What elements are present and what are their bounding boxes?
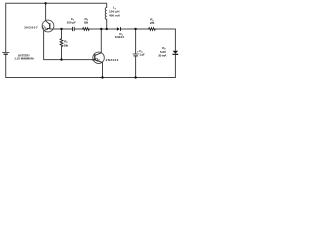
wire mid rail R2 to D1	[89, 28, 117, 30]
wire mid rail C1 to R2	[74, 28, 82, 30]
wire Q2 collector up	[100, 29, 102, 53]
svg-text:10k: 10k	[64, 43, 69, 47]
svg-text:20 mA: 20 mA	[158, 53, 167, 57]
svg-text:10k: 10k	[84, 21, 89, 25]
junction node dots	[44, 2, 136, 79]
wire mid rail D1 to R3	[121, 28, 149, 30]
wire R1 top	[61, 29, 63, 39]
LED D2	[173, 51, 179, 55]
wire left rail + top rail to L1	[6, 3, 107, 52]
diode D1 1N914	[117, 27, 121, 31]
wire mid rail Q1 to C1	[53, 28, 72, 30]
svg-text:1 µF: 1 µF	[139, 52, 145, 56]
wire L1 bottom branch	[106, 19, 108, 29]
resistor R3	[149, 28, 156, 31]
node Q2 emitter / bottom rail	[101, 76, 103, 78]
inductor L1	[105, 7, 107, 19]
node C2 / mid rail	[134, 28, 136, 30]
battery B1	[2, 52, 9, 54]
wire battery bottom + bottom rail	[6, 55, 176, 78]
capacitor C2 1uF polarized	[133, 54, 139, 56]
node R1 / mid rail	[60, 28, 62, 30]
wire C2 branch upper	[135, 29, 137, 54]
svg-text:270: 270	[150, 21, 155, 25]
node Q1 collector / top rail	[44, 2, 46, 4]
svg-text:1.1V MINIMUM: 1.1V MINIMUM	[14, 57, 34, 61]
transistor Q1 2N2907	[42, 20, 54, 32]
wire C2 branch lower	[135, 56, 137, 78]
wire Q2 emitter down	[102, 62, 104, 77]
node C2 / bottom rail	[134, 76, 136, 78]
svg-text:100 pF: 100 pF	[67, 20, 77, 24]
capacitor C1	[73, 27, 75, 31]
wire right rail lower	[174, 55, 176, 78]
wire right rail upper	[174, 29, 176, 50]
svg-text:400 mA: 400 mA	[109, 13, 121, 17]
svg-text:2N2907: 2N2907	[24, 26, 38, 30]
wire mid rail R3 to right corner	[155, 28, 175, 30]
transistor Q2 2N2222	[92, 52, 104, 64]
resistor R1	[60, 39, 63, 47]
wire Q1 collector to top rail	[45, 3, 47, 20]
node R1 / base wire	[60, 58, 62, 60]
resistor R2	[83, 28, 90, 31]
node Q2 collector / mid rail	[100, 28, 102, 30]
wire Q1 emitter down, base wire to Q2	[44, 31, 95, 60]
wire R1 bottom	[61, 47, 63, 60]
svg-text:2N2222: 2N2222	[106, 58, 119, 62]
node L1 / mid rail	[106, 28, 108, 30]
svg-text:1N914: 1N914	[115, 35, 124, 39]
